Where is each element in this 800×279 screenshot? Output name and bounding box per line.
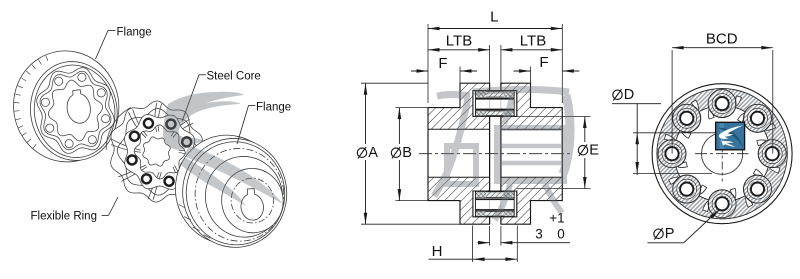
- dim D (bore): [613, 90, 622, 99]
- label Steel Core leader: [199, 74, 206, 76]
- svg-text:F: F: [539, 54, 548, 71]
- svg-text:F: F: [438, 55, 447, 72]
- front view wavy hatched flexible ring band: [657, 89, 787, 219]
- front view outer circle: [652, 84, 792, 224]
- svg-text:BCD: BCD: [706, 30, 738, 47]
- dim A: [365, 83, 367, 224]
- right flange rim ticks: [204, 235, 211, 239]
- blue logo watermark square: [716, 122, 745, 150]
- front view notches: [736, 96, 742, 106]
- left flange bore with keyway: [67, 90, 90, 124]
- section: centerline: [419, 153, 572, 155]
- watermark gray swallow (left): [163, 92, 244, 150]
- label Flexible Ring leader: [102, 215, 109, 217]
- svg-text:Flexible Ring: Flexible Ring: [31, 211, 97, 223]
- svg-text:3: 3: [535, 227, 543, 242]
- section: right hub outline: [501, 83, 562, 224]
- right flange bore with keyway: [241, 189, 264, 221]
- dim L: [428, 28, 562, 30]
- svg-text:P: P: [665, 226, 675, 242]
- section: right hub hatched body: [501, 83, 562, 224]
- svg-text:Steel Core: Steel Core: [207, 71, 261, 83]
- dim F left: [411, 70, 428, 72]
- section: right hub max-bore phantom lines: [517, 116, 563, 118]
- front view lobes and holes: [708, 90, 736, 118]
- dim B: [398, 108, 400, 201]
- dim F right: [514, 70, 531, 72]
- section: left hub outline: [428, 83, 490, 224]
- dim LTB left: [428, 49, 490, 51]
- steel cores (black rings on flexible ring): [119, 110, 200, 194]
- dim gap 3 +1/0: [478, 242, 490, 244]
- svg-text:H: H: [432, 243, 443, 260]
- front view centerlines: [695, 153, 749, 155]
- section: bore edges: [428, 128, 490, 130]
- section: top steel core/bolt assembly: [473, 91, 517, 117]
- svg-text:A: A: [368, 145, 378, 161]
- section: left hub hatched body: [428, 83, 490, 224]
- svg-text:B: B: [402, 145, 412, 161]
- dim E: [584, 117, 586, 189]
- svg-text:L: L: [490, 9, 498, 26]
- left flange (3D): [6, 43, 127, 169]
- watermark gray character strokes (middle): [437, 95, 470, 97]
- left flange lobed face: [32, 64, 118, 158]
- dim P (hole) leader: [654, 229, 663, 238]
- dim LTB right: [501, 49, 562, 51]
- dim H: [429, 258, 518, 260]
- watermark gray right descender: [563, 95, 570, 174]
- svg-text:Flange: Flange: [256, 102, 291, 114]
- svg-text:+1: +1: [549, 211, 564, 226]
- dim BCD: [672, 47, 773, 49]
- label Flange (left) + leader: [31, 27, 292, 223]
- flexible ring (3D): [98, 92, 215, 211]
- svg-text:E: E: [589, 142, 599, 158]
- section: bottom steel core/bolt assembly: [473, 191, 517, 217]
- svg-text:D: D: [624, 87, 634, 103]
- section: flange gap faces: [489, 83, 491, 90]
- svg-text:0: 0: [557, 227, 565, 242]
- label Flange (right) leader: [249, 105, 256, 107]
- extension lines top: [427, 24, 429, 103]
- front view bore circle: [702, 133, 743, 174]
- right flange (3D): [168, 128, 295, 255]
- svg-text:Flange: Flange: [117, 27, 152, 39]
- svg-text:LTB: LTB: [446, 32, 472, 49]
- svg-text:LTB: LTB: [520, 32, 546, 49]
